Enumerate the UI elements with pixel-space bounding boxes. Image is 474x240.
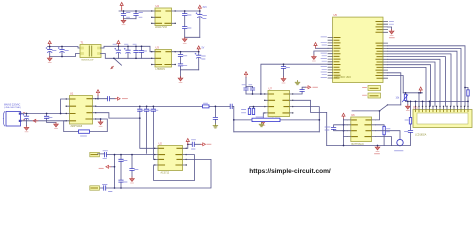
U1 pins right	[93, 99, 97, 119]
diode D1 on rail	[203, 105, 210, 108]
flag VOUT1 net arrow	[115, 97, 120, 100]
labels C28 C29	[124, 161, 128, 182]
current sensor U7 body	[268, 91, 290, 117]
label C31	[192, 140, 196, 149]
wire VCC stem to caps rail	[246, 78, 253, 87]
svg-text:U5: U5	[334, 13, 338, 17]
power flag VCC at U2	[186, 139, 189, 145]
U6 pins right	[372, 120, 376, 137]
wire bus lcd RW	[388, 65, 431, 107]
DS1 pin top node dots	[415, 106, 469, 107]
label C16	[49, 117, 52, 119]
power flag VCC at 7805 input	[117, 41, 120, 47]
label flag red	[99, 167, 103, 169]
ground under C1	[47, 57, 52, 63]
wire bus lcd D4	[388, 54, 451, 106]
J1 pin pads	[19, 113, 22, 115]
flag VOUT2 net arrow	[306, 86, 311, 89]
wire rail drop lcd pin2	[418, 93, 420, 106]
label C4 C14	[183, 56, 187, 66]
wire U5 to pushbutton block	[388, 73, 401, 105]
wire transformer primary bottom rail	[50, 54, 81, 57]
regulator U3 7805 body	[155, 50, 172, 68]
resistor R5 backlight	[467, 90, 469, 96]
label tabs red refdes	[363, 88, 367, 96]
label C6 C7 values	[127, 13, 143, 18]
U2 pins right	[183, 148, 187, 165]
label R4	[256, 116, 263, 118]
wire R2 R3 tops to U7 pin3	[250, 107, 265, 109]
ground under C16	[54, 123, 59, 129]
wire P4 row to outer loop	[99, 159, 211, 188]
wire switch to arduino drop	[388, 104, 401, 106]
U5 right pin name strokes	[376, 22, 382, 79]
U2 pins left	[155, 148, 159, 165]
wire bus lcd D6	[388, 49, 461, 107]
op-amp regulator U4 LD1117 body	[155, 8, 172, 26]
label R7	[405, 119, 408, 121]
capacitor C21 on rail to earth	[214, 106, 216, 123]
capacitor C24	[252, 87, 254, 95]
wire U7 pin2R to lower block	[293, 100, 327, 145]
resistor R7 column right	[392, 101, 411, 145]
label P2	[370, 87, 378, 89]
flag net label on neutral wire	[33, 119, 38, 122]
wire U1 pin3 staircase to divider	[96, 113, 140, 118]
capacitor C3 polarized	[117, 46, 119, 58]
U7 pin names	[269, 94, 289, 113]
wire RV1 top to rail1	[405, 93, 407, 94]
crystal Y1 circle	[376, 131, 401, 140]
svg-text:DS1: DS1	[413, 106, 418, 109]
node junction C6 top	[123, 10, 125, 12]
DS1 pins top	[416, 106, 469, 109]
wire transformer primary top rail	[48, 47, 81, 49]
wire net 5V into U4	[119, 10, 152, 12]
node junctions U3 output	[180, 51, 182, 53]
capacitor C18 on leg 1	[138, 109, 142, 111]
node junctions cap rail	[49, 46, 51, 48]
U3 pins left	[152, 52, 156, 65]
microcontroller board U5 Arduino UNO body	[333, 17, 383, 82]
J1 brace	[3, 112, 5, 127]
wire caps to U7 pin1	[246, 93, 265, 95]
node junction U4 output	[184, 10, 186, 12]
labels C23 C24	[242, 84, 252, 86]
divider leg 3 wire	[153, 106, 154, 159]
ground stem on loop row	[261, 121, 263, 124]
label C27	[103, 151, 108, 159]
label Y1	[395, 150, 404, 152]
divider leg 2 wire	[146, 106, 148, 153]
power flag 3V3	[198, 5, 201, 11]
ground under C6	[121, 19, 126, 25]
wire rail drop lcd pin1	[415, 101, 417, 106]
wire RV1 bottom to rail2	[405, 100, 407, 101]
U5 left net label texts	[321, 37, 327, 78]
wire vertical joining P1 P4 nets	[114, 155, 116, 188]
capacitor C22 series end of rail	[230, 104, 232, 108]
power flag VCC to U5 left pin	[314, 43, 317, 49]
labels R2 R3	[242, 110, 246, 113]
DS1 screen inner	[417, 113, 468, 124]
wire rail drop lcd pin3	[422, 101, 424, 106]
wire U7 pin3R loop right vertical	[293, 107, 319, 132]
capacitor C26	[300, 90, 304, 92]
wire VCC to pin	[316, 47, 329, 49]
capacitor C32 series on P4	[104, 186, 106, 190]
wire J1 line to U1 pin3	[21, 113, 66, 115]
wire gnd to U5 left pin	[314, 51, 328, 55]
labels leg caps	[142, 109, 158, 111]
capacitor C27 series	[105, 152, 107, 156]
labels C3 C11 C12 C13	[113, 44, 147, 51]
wire bus lcd D7	[388, 46, 465, 106]
wire bus lcd RS	[388, 67, 426, 106]
wire U5 to lcd power rail	[388, 76, 404, 93]
wire U6 top loop to switch	[352, 110, 380, 112]
wire U2 pin1R output	[187, 144, 201, 148]
wire bus lcd D2	[388, 59, 440, 106]
label C10	[203, 16, 207, 19]
wire lcd rail1 vdd	[403, 92, 422, 94]
wire jogs to U6 left pins	[344, 120, 348, 137]
wire R5 leads	[465, 88, 468, 102]
wire bus lcd D3	[388, 57, 446, 107]
T1 pads	[81, 47, 84, 50]
switch SW1 lever	[380, 105, 388, 111]
wire bottom return of C4 C5	[181, 69, 199, 71]
capacitor C9	[183, 27, 187, 29]
display DS1 LCD1602 body	[413, 110, 472, 128]
label right top pins blue	[389, 22, 393, 25]
svg-text:https://simple-circuit.com/: https://simple-circuit.com/	[249, 168, 331, 175]
rtc U6 body	[351, 117, 372, 142]
svg-text:U3: U3	[156, 46, 160, 50]
wire long rail from U1 pin2	[96, 105, 230, 107]
power flag VCC above U7 caps	[244, 72, 247, 78]
U5 pins right column	[383, 22, 388, 79]
label C30	[135, 169, 139, 171]
ground at U7 pin4	[263, 113, 264, 119]
ground under C15	[24, 126, 29, 132]
ground at U1 pin4 area	[96, 119, 101, 120]
U5 left pin name strokes	[334, 38, 340, 79]
wire U7 pin1 out top rail to Arduino	[261, 64, 333, 94]
label VOUT3	[207, 143, 211, 145]
capacitor C2 polarized	[61, 47, 63, 57]
wire U6 pin4R to bottom	[376, 137, 392, 146]
capacitor C28 on divider	[120, 155, 122, 188]
U2 pin names	[159, 148, 182, 165]
flag net arrow mid divider	[111, 166, 115, 168]
svg-text:U4: U4	[156, 4, 160, 8]
DS1 pin number marks	[416, 110, 469, 111]
resistor R4 on loop row	[252, 118, 280, 121]
wire U2 pin2R inner loop	[154, 155, 195, 181]
wire P1 to U2	[98, 153, 155, 156]
wire T1 secondary bottom rail	[101, 54, 152, 59]
power flag VCC 5V input of regulator U4	[121, 8, 123, 11]
svg-text:ACS712: ACS712	[161, 172, 170, 175]
label gnd red	[389, 37, 394, 39]
divider leg 1 wire	[140, 106, 155, 148]
capacitor C29 lower	[119, 180, 123, 182]
capacitor C17 series on U1 output	[98, 98, 115, 100]
resistor R1 on loop	[79, 130, 90, 133]
capacitor C15 polarized across mains	[26, 114, 28, 126]
svg-text:U1: U1	[70, 92, 74, 96]
wire bus lcd E	[388, 62, 435, 106]
label C34	[405, 131, 409, 133]
ground under C25	[281, 77, 286, 83]
U1 pin names	[71, 99, 92, 121]
wire rail end down to loop	[232, 106, 234, 131]
svg-text:U7: U7	[269, 86, 273, 90]
wire U6 left rail	[343, 119, 345, 146]
wire T1 secondary top to 7805 input	[101, 46, 152, 51]
svg-text:U6: U6	[351, 113, 355, 117]
label P3	[370, 95, 378, 97]
capacitor C12	[135, 46, 137, 58]
power flag VCC above transformer input caps	[48, 41, 51, 47]
capacitor C5 polarized	[198, 52, 200, 70]
wire bottom return of C8 C10	[185, 36, 200, 38]
voltage sensor U1 ZMPT101B body	[70, 96, 93, 125]
U3 pin names	[156, 52, 171, 65]
power flag VCC at U6 rail	[342, 113, 345, 119]
label C8 C9	[188, 15, 192, 28]
U4 pins right	[172, 11, 176, 23]
capacitor C30 with ground	[131, 155, 133, 177]
label C32	[103, 184, 113, 191]
wire to U1 pin1	[61, 99, 66, 114]
wire lcd rail2 vss	[406, 100, 469, 102]
svg-text:ZMPT101B: ZMPT101B	[71, 126, 83, 128]
earth ground near C26	[295, 81, 300, 85]
wire rail drop lcd pin16	[467, 101, 469, 106]
capacitor C23	[245, 87, 247, 95]
capacitor C33 beside rail	[334, 125, 344, 131]
connector J1 mains input body	[6, 112, 21, 127]
wire U6 bottom rail	[327, 145, 392, 147]
J1 pin number marks red	[23, 113, 25, 120]
capacitor C10 polarized	[199, 11, 201, 37]
power flag 5V output	[197, 46, 200, 52]
wire net 3V3 output of U4	[176, 10, 200, 12]
capacitor C8 stack	[184, 11, 186, 37]
wire U1 pin4 bottom loop	[64, 119, 108, 132]
label gnd red	[375, 153, 380, 155]
module port P3 tab	[368, 93, 381, 98]
capacitor C6	[123, 11, 125, 19]
capacitor C16	[47, 114, 56, 123]
capacitor C13	[141, 46, 143, 58]
U6 pin names	[352, 120, 371, 137]
capacitor C20 on leg 3	[151, 109, 155, 111]
power flag VCC at U1 pin1 output side	[96, 96, 98, 99]
wire U7 loop bottom	[234, 131, 319, 133]
wire bus lcd D5	[388, 51, 457, 106]
sensor U2 body	[158, 146, 183, 171]
power flag VCC lcd	[419, 87, 422, 93]
wire gnd rail under C6 C7	[124, 18, 137, 20]
label C25	[286, 67, 290, 69]
resistor R2 vertical pair	[248, 108, 250, 114]
label R1	[81, 135, 87, 137]
capacitor C7	[135, 11, 137, 19]
ground at U5 right top pin	[388, 27, 392, 30]
U4 pin names	[156, 11, 171, 23]
switch S1 actuator mark	[111, 66, 114, 69]
label C33	[325, 127, 330, 130]
node junctions 7805 input rail	[118, 45, 120, 47]
svg-text:LD1117V33: LD1117V33	[155, 27, 168, 29]
U5 pins left column	[328, 38, 333, 79]
flag VOUT3 net arrow	[201, 143, 206, 146]
label VOUT2	[313, 86, 318, 88]
capacitor C34 on column	[408, 130, 412, 132]
svg-text:U2: U2	[159, 141, 163, 145]
capacitor C11 polarized	[127, 46, 129, 58]
wire rail drop lcd pin5	[429, 101, 431, 106]
resistor R6 at U6 pin2R	[376, 125, 385, 146]
wire J1 neutral to U1 pin4	[21, 120, 66, 122]
transformer T1 body	[80, 45, 101, 58]
label P4	[91, 187, 98, 189]
resistor R3 vertical	[252, 108, 254, 114]
ground under C30	[130, 177, 135, 183]
wire net 5V output of U3	[176, 51, 199, 53]
RV1 wiper arrow	[402, 95, 408, 102]
U1 pins left	[66, 99, 70, 121]
switch S1 lever	[114, 58, 122, 65]
T1 core bars	[89, 46, 91, 56]
ground on bottom rail	[375, 146, 380, 152]
port P1 current transformer terminal	[90, 152, 100, 156]
label VOUT1	[122, 98, 127, 100]
wire U6 pin1R up to top loop	[376, 111, 380, 120]
svg-text:MAINS 220VAC: MAINS 220VAC	[4, 103, 21, 106]
earth ground under C21	[213, 124, 218, 128]
wire loop resistor row	[234, 119, 319, 121]
capacitor C14	[178, 64, 182, 66]
ground at U5 left	[312, 55, 317, 61]
svg-text:B0505S-1W: B0505S-1W	[82, 59, 95, 61]
U4 pins left	[152, 11, 156, 23]
label P1	[91, 154, 98, 156]
U7 pins left	[265, 94, 269, 113]
ground under rail2	[407, 101, 409, 104]
potentiometer RV1 body	[404, 94, 406, 100]
label D1	[204, 102, 208, 104]
label R6	[387, 129, 391, 132]
svg-text:5V: 5V	[202, 48, 205, 50]
capacitor C31 series at output	[192, 142, 194, 146]
wire U7 pin1R output with cap	[293, 87, 306, 94]
module port P2 tab	[368, 86, 381, 91]
capacitor C4 stack	[180, 52, 182, 70]
svg-text:3V3: 3V3	[203, 7, 208, 9]
capacitor C25 to ground on 64 rail	[283, 64, 285, 77]
label C5	[202, 56, 206, 59]
svg-text:LCD1602A: LCD1602A	[415, 134, 427, 137]
U6 pins left	[347, 120, 351, 137]
capacitor C19 on leg 2	[144, 109, 148, 111]
svg-text:L7805CV: L7805CV	[156, 69, 166, 71]
U7 pins right	[290, 94, 294, 113]
svg-text:(LINE+NEUTRAL): (LINE+NEUTRAL)	[4, 106, 21, 109]
capacitor C1 polarized	[49, 47, 51, 57]
U3 pins right	[172, 52, 176, 65]
label C1 C2	[53, 50, 69, 52]
port P4 terminal	[90, 186, 100, 190]
ground under C4 stack	[180, 70, 182, 79]
ground under C8 stack	[182, 37, 187, 43]
